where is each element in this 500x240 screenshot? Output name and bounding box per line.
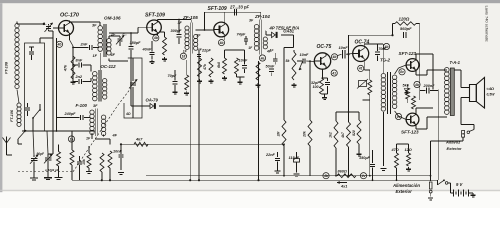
svg-text:0,5W: 0,5W [487,93,496,97]
ground [30,177,38,179]
ground [380,168,386,170]
capacitor 150uF [370,150,375,180]
junction [43,23,45,25]
svg-text:≈4Ω: ≈4Ω [487,86,495,91]
svg-text:22nF: 22nF [265,153,276,157]
ground [428,197,433,199]
svg-text:200nF: 200nF [423,84,436,88]
svg-text:OC-74: OC-74 [355,40,370,46]
trimmer capacitor C3 [116,33,127,45]
capacitor 10nF [113,144,124,170]
wire [186,60,188,75]
junction [283,175,285,177]
wire [363,44,365,46]
svg-text:74pF: 74pF [237,32,247,36]
svg-text:10nF: 10nF [239,59,249,63]
svg-text:OM-106: OM-106 [104,15,121,20]
shield box oscillator tuning [124,58,142,118]
svg-text:22pF: 22pF [201,49,212,53]
wire [336,111,359,113]
junction [56,130,58,132]
svg-text:4k7: 4k7 [341,131,345,139]
junction [430,175,432,177]
svg-text:4b: 4b [57,43,62,47]
junction [257,179,259,181]
svg-text:4k7: 4k7 [135,138,143,142]
IF transformer T1 OM-106 [98,24,111,57]
transistor Q1 OC-170 [59,21,74,36]
capacitor 70pF [168,74,178,90]
wire [407,84,409,88]
wire [382,50,384,73]
svg-text:41: 41 [358,67,363,71]
wire [258,61,260,180]
node 4a [259,55,265,61]
capacitor 2nF [73,42,99,51]
wire [415,71,417,75]
wire [71,131,73,150]
capacitor 50nF [266,65,276,77]
capacitor 2n2 [73,75,91,84]
wire [283,144,285,146]
junction [391,34,393,36]
capacitor in box lower [25,103,30,116]
wire [224,37,226,40]
svg-text:240pF: 240pF [64,112,77,116]
junction [120,143,122,145]
node 9v [395,113,401,119]
wire [69,36,71,41]
capacitor 74pF [237,32,249,45]
ground [472,193,474,195]
resistor 1k2 [329,121,339,148]
transistor Q6 SFT-123 [406,59,419,72]
wire AGC [283,146,285,176]
transistor Q3 SFT-109 [214,22,229,37]
svg-text:4b: 4b [323,174,328,178]
svg-text:10nF: 10nF [339,45,349,50]
wire [39,38,41,43]
external speaker jack [462,131,465,140]
wire [415,108,417,113]
svg-text:Alimentación: Alimentación [392,183,420,188]
wire [460,115,462,125]
output transformer T7 TA-1 [445,68,455,116]
node 4v [360,173,366,179]
resistor 20k [303,120,313,146]
wire [101,172,103,180]
svg-text:8nF: 8nF [76,59,83,63]
junction [72,47,74,49]
ground [164,57,166,59]
wire [392,24,394,36]
wire [17,23,44,25]
junction [347,175,349,177]
svg-text:Altavoz: Altavoz [445,140,460,145]
coil slider arrow [18,130,26,144]
capacitor 8nF [73,59,91,68]
resistor [57,152,61,167]
junction [109,179,111,181]
ground [257,83,259,85]
resistor [70,150,74,165]
svg-text:560pF: 560pF [400,26,412,31]
node 4b [331,54,337,60]
ground [186,91,188,93]
node 1a [68,136,74,142]
resistor 47k [203,58,213,77]
svg-text:1k2: 1k2 [329,132,333,138]
svg-text:o 100k pF: o 100k pF [45,168,59,172]
IF transformer T5 ZF-104 [254,19,267,54]
transistor Q2 SFT-109 [147,20,162,35]
node 4b [153,35,159,41]
wire [324,94,326,96]
svg-text:C₂: C₂ [43,22,48,26]
svg-text:120Ω: 120Ω [399,17,410,22]
svg-text:3F: 3F [92,24,97,28]
svg-text:4a: 4a [260,56,265,60]
resistor [198,58,202,77]
wire long vertical [52,31,54,154]
svg-text:27...33 pF: 27...33 pF [229,4,250,9]
svg-text:4b: 4b [414,83,419,87]
node 4b [323,173,329,179]
svg-text:Exterior: Exterior [396,189,413,194]
wire [88,168,90,172]
wire [408,144,410,153]
svg-text:4b: 4b [332,55,337,59]
ground [55,177,63,179]
svg-text:SFT-109: SFT-109 [208,6,227,12]
resistor 120R [395,22,416,26]
wire [53,27,59,29]
wire [109,35,120,37]
variable capacitor C5 [125,58,137,118]
capacitor 40nF [142,41,155,59]
ground [275,170,281,172]
wire [236,74,238,77]
resistor [395,153,399,168]
resistor [185,75,189,90]
power jack [429,182,432,197]
svg-text:T-A-1: T-A-1 [450,60,461,65]
wire collector [69,21,71,22]
bus ground rail [72,179,438,181]
resistor [108,151,112,168]
capacitor 22pF [197,55,201,57]
wire [17,90,19,104]
resistor 6k8 [217,58,227,74]
svg-text:2nF: 2nF [80,42,89,47]
capacitor 70nF [375,47,387,61]
svg-text:40nF: 40nF [142,48,153,52]
svg-text:OA81: OA81 [283,29,294,34]
junction [178,19,180,21]
oscillator coil T3 F-100 [90,109,106,137]
node 41 [331,70,337,76]
variable capacitor C1a [30,152,45,177]
capacitor 10nF [294,50,315,64]
wire [22,130,95,132]
capacitor 560pF [404,32,406,38]
wire [448,182,451,184]
svg-text:41: 41 [331,71,336,75]
svg-text:10nF: 10nF [300,53,310,57]
svg-text:1F: 1F [93,54,98,58]
node 4b [383,43,389,49]
ground [294,173,300,175]
junction [189,105,191,107]
wire [58,166,60,177]
wire [363,61,365,70]
resistor 15k [82,153,91,168]
resistor [407,153,411,166]
tuning gang dashed link [18,88,131,172]
wire top bias [204,12,206,30]
svg-text:2n2: 2n2 [75,75,83,79]
shield box antenna tuning [25,43,45,131]
ground [151,60,153,62]
junction [283,143,285,145]
node 4b [218,40,224,46]
oscillator transformer T2 [93,70,107,102]
resistor 4k7 supply [341,122,351,147]
svg-text:4x1: 4x1 [340,185,347,189]
transistor Q5 OC-74 [353,46,369,62]
svg-text:1a: 1a [70,137,74,141]
svg-text:4b: 4b [153,36,158,40]
power switch [438,179,448,184]
ground [44,177,52,179]
junction [348,111,350,113]
resistor 47k [64,56,76,79]
svg-text:Exterior: Exterior [447,146,463,151]
node 8v [399,69,405,75]
wire [91,133,93,139]
resistor [235,58,239,74]
wire [48,24,50,26]
node 4b [56,41,62,47]
transistor Q4 OC-75 [314,53,330,69]
ground [118,172,124,174]
speaker [470,78,485,109]
ground [408,167,410,169]
svg-text:FT-108: FT-108 [5,61,9,74]
wire [32,118,34,131]
svg-text:300pF: 300pF [171,29,183,33]
wire base Q3 [196,29,214,31]
resistor [256,62,260,80]
wire [47,131,48,154]
svg-text:SFT-109: SFT-109 [145,13,165,19]
wire [369,95,371,100]
bus line upper [146,175,431,177]
wire [395,111,399,116]
wire [461,87,470,89]
wire [335,112,337,121]
resistor 4k7 [134,138,148,147]
svg-text:TG-2: TG-2 [380,58,391,63]
junction [369,175,371,177]
volume potentiometer [286,52,304,80]
wire collector [157,19,159,22]
junction [101,179,103,181]
resistor 5k6 [406,88,410,99]
ground [210,79,212,81]
ground [293,83,295,85]
svg-text:100: 100 [313,85,319,89]
wire feedback [349,34,393,36]
wire [58,144,60,151]
wire [382,112,384,118]
resistor 2M [277,120,287,146]
ground [86,171,92,173]
variable capacitor C1b [44,154,52,177]
svg-text:Lavis 740 schematic: Lavis 740 schematic [485,6,490,42]
coil L1a ferrite antenna winding [15,22,19,89]
junction [72,64,74,66]
wire [260,12,262,19]
svg-text:6k8: 6k8 [217,62,221,68]
junction [130,32,132,34]
wire [33,131,34,155]
resistor 820 [352,120,361,144]
svg-text:OC-112: OC-112 [101,64,117,69]
thermistor [357,79,368,89]
svg-text:5k6: 5k6 [403,84,410,88]
svg-text:3F: 3F [93,104,98,108]
svg-text:OC-170: OC-170 [60,13,79,19]
capacitor 10nF [338,45,353,59]
svg-text:47Ω: 47Ω [391,148,399,152]
junction [396,179,398,181]
resistor [412,96,416,109]
transistor Q7 SFT-123 [406,113,419,126]
svg-text:4F: 4F [112,134,118,138]
wire jack to plug [462,139,464,141]
svg-text:47k: 47k [64,64,68,72]
wire [225,49,245,51]
ground [72,80,74,82]
svg-text:4Ω: 4Ω [125,112,131,116]
svg-text:50nF: 50nF [266,65,276,69]
wire [415,54,417,59]
svg-text:20k: 20k [303,130,307,138]
ground [199,79,201,81]
svg-text:820: 820 [352,130,356,136]
wire [415,126,417,130]
wire [174,70,176,78]
wire [461,97,470,99]
wire [396,144,398,153]
trimmer capacitor C2 [43,22,53,32]
capacitor 27-33pF [233,9,235,15]
wire [419,35,421,100]
junction [204,29,206,31]
wire [72,46,74,56]
wire [378,43,384,45]
wire [90,65,92,72]
svg-text:4b: 4b [219,41,224,45]
junction [189,179,191,181]
diode OA81 detector [266,32,294,38]
junction [335,175,337,177]
svg-text:FT-106: FT-106 [10,109,14,122]
antenna [3,137,13,156]
svg-text:OA-79: OA-79 [146,98,159,103]
capacitor 115uF electrolytic [294,152,300,173]
diode bias [404,89,408,93]
junction [198,179,200,181]
svg-text:12Ω: 12Ω [405,148,412,152]
capacitor 200nF [420,88,439,94]
wire [437,180,439,185]
driver transformer T6 TG-2 [381,72,397,114]
ground [324,96,326,98]
wire [393,23,396,25]
wire supply vertical [348,35,350,54]
ground [239,80,241,82]
wire [99,55,101,70]
node 4b [414,81,420,87]
junction [347,53,349,55]
resistor [100,153,104,172]
wire detector out [293,35,295,48]
resistor 860R [337,169,356,177]
diode OA-79 [131,103,190,109]
svg-text:150µF: 150µF [359,156,371,160]
band switch contact [32,104,41,119]
resistor capacitor emitter network [311,74,330,94]
junction [372,179,374,181]
svg-text:SFT-123: SFT-123 [399,51,417,56]
wire [72,48,74,82]
capacitor 300pF [171,20,183,45]
capacitor 1F tap [270,49,278,65]
wire [109,168,111,180]
wire long vertical [56,38,58,131]
capacitor in box upper [29,47,34,60]
svg-text:860Ω: 860Ω [338,169,347,173]
capacitor [77,156,82,180]
svg-text:70pF: 70pF [168,74,178,78]
svg-text:ZF-105: ZF-105 [182,15,198,20]
svg-text:F-100: F-100 [76,103,88,108]
wire [358,144,360,152]
svg-text:4F: 4F [110,53,116,57]
capacitor 240pF [57,112,91,120]
resistor [368,80,372,95]
resistor [163,37,167,55]
battery 9V [451,190,474,197]
wire base [131,32,138,34]
svg-text:ZF-104: ZF-104 [254,14,270,19]
wire [454,69,461,71]
wire [264,30,267,32]
IF transformer T4 ZF-105 [185,22,198,53]
wire bias vertical [309,61,311,120]
svg-text:SFT-123: SFT-123 [401,130,419,135]
wire long vertical [198,51,200,180]
switch external speaker [467,130,474,134]
svg-text:18: 18 [182,55,186,59]
junction [309,60,311,62]
ground [358,152,360,154]
wire [157,34,159,35]
coil L1b ferrite antenna winding [17,103,21,107]
node 41 below Q5 [358,65,364,71]
